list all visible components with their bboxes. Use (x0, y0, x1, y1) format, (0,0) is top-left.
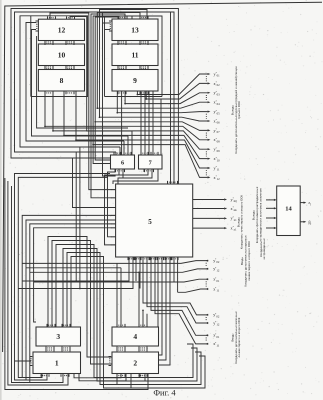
wire L1 (15, 174, 111, 381)
wire fan2 row 4 (155, 257, 208, 344)
arrowhead fan1 row 4 (205, 288, 208, 290)
svg-text:y•05: y•05 (214, 108, 221, 115)
wire 5 drop to block4 corner (157, 257, 159, 327)
wire into block4 top e (142, 310, 144, 327)
arrowhead 5 output 4 (224, 227, 227, 229)
arrowhead fan row 12 (208, 176, 211, 178)
junction dot (145, 98, 147, 100)
svg-text:βj: βj (309, 219, 312, 225)
pins block 13 top (140, 16, 148, 19)
pins block 12 left (36, 21, 39, 31)
wire group box right bottom (105, 96, 163, 98)
svg-text:x•01: x•01 (213, 276, 220, 283)
pins block 13 bottom (118, 41, 126, 44)
svg-text:x•10: x•10 (214, 155, 221, 162)
svg-text:9: 9 (133, 76, 137, 85)
arrowhead fan2 row 4 (205, 343, 208, 345)
bus dots fan pair 6 (205, 170, 207, 175)
svg-text:y•11: y•11 (214, 165, 221, 172)
wire L1 branch block1 left (15, 360, 32, 362)
wire fan2 row 3 (151, 257, 208, 335)
arrowhead 14 input (274, 207, 277, 209)
pins block 13 bottom (140, 41, 148, 44)
block 5 (116, 184, 193, 257)
bus dots fan pair 3 (205, 114, 207, 119)
svg-text:Фиг. 4: Фиг. 4 (153, 388, 176, 398)
pins block 10 bottom (45, 67, 53, 70)
svg-text:1: 1 (55, 358, 59, 367)
wire mid col 5 (95, 17, 118, 160)
junction dot (52, 130, 54, 132)
wire bottom loop 1 (5, 178, 148, 390)
pins block 3 top (62, 324, 70, 327)
pins block 5 left (111, 214, 115, 216)
pins block 9 bottom (140, 92, 148, 95)
pins block 3 bottom (46, 347, 54, 350)
wire 14 input (266, 207, 274, 209)
svg-text:x•06: x•06 (214, 118, 221, 125)
wire mid col 3 (91, 14, 125, 198)
pins block 12 bottom (66, 41, 74, 44)
wire loop C main (20, 16, 120, 147)
wire 5 bottom drop to fan1 1 (165, 257, 167, 263)
svg-text:y•mj: y•mj (231, 196, 237, 203)
bus dots fan pair 1 (205, 76, 207, 81)
wire loop D (123, 141, 125, 155)
pins block 9 bottom (118, 92, 126, 95)
wire loop C (119, 147, 121, 155)
wire q2 (26, 220, 116, 380)
bus dots fan1 pair 1 (205, 263, 207, 267)
pins block 3 top (47, 324, 55, 327)
wire wrap over 13 (105, 16, 163, 97)
svg-text:y•07: y•07 (214, 127, 221, 134)
svg-text:x•nk: x•nk (231, 205, 238, 212)
arrowhead fan row 10 (208, 158, 211, 160)
wire into block 7 top (140, 91, 142, 155)
pins block 12 bottom (45, 42, 53, 45)
svg-text:x•08: x•08 (214, 137, 221, 144)
arrowhead 5 output 2 (224, 207, 227, 209)
bus dots fan2 pair 2 (205, 338, 207, 342)
wire fan1 row 1 (166, 261, 208, 264)
svg-text:12: 12 (58, 26, 66, 35)
arrowhead fan row 7 (208, 129, 211, 131)
pins block 10 bottom (45, 66, 53, 69)
wire into block4 top c (138, 272, 140, 327)
bus dots fan1 pair 2 (205, 281, 207, 286)
wire mid col 8 to 5top (103, 13, 116, 177)
pins block 5 bottom (135, 258, 141, 261)
arrowhead fan2 row 2 (205, 322, 208, 324)
arrowhead 14 output 2 (304, 221, 307, 223)
svg-text:x•02: x•02 (214, 80, 221, 87)
wire 6 bottom c (118, 169, 123, 184)
pins block 7 top (141, 152, 148, 155)
svg-text:y•09: y•09 (214, 146, 221, 153)
pins block 5 left (111, 207, 115, 209)
svg-text:y•12: y•12 (213, 320, 220, 327)
pins block 13 left (109, 21, 112, 31)
junction dot (138, 271, 140, 273)
pins block 5 bottom (165, 258, 171, 261)
wire U block1 to block2 a (74, 374, 121, 378)
pins block 1 bottom (61, 374, 69, 377)
wire 5 output 1 (193, 199, 225, 201)
pins block 11 bottom (118, 66, 126, 69)
block 8 (38, 70, 84, 92)
wire q4 branch (34, 281, 174, 283)
wire branch to 7 top right (160, 100, 162, 156)
pins block 3 bottom (62, 349, 70, 352)
wire loop D main (26, 23, 124, 142)
svg-text:10: 10 (58, 50, 66, 59)
arrowhead fan row 11 (208, 167, 211, 169)
wire 5 drop L1 (22, 257, 129, 281)
wire fan1 row 4 (178, 289, 209, 292)
wire gap line 2 (52, 241, 112, 365)
block 2 (112, 352, 159, 374)
block 6 (111, 155, 135, 169)
wire 5 drop L2 (18, 257, 133, 289)
pins block 12 top (67, 16, 75, 19)
junction dot (75, 139, 77, 141)
arrowhead fan1 row 1 (205, 260, 208, 262)
pins block 5 bottom (128, 258, 134, 261)
junction dot (142, 310, 144, 312)
wire gap line 6 (71, 257, 205, 389)
arrowhead 14 input (274, 227, 277, 229)
wire q3 (30, 224, 116, 383)
svg-text:3: 3 (56, 332, 60, 341)
wire fan row 1 (137, 74, 207, 95)
svg-text:x•12: x•12 (214, 174, 221, 181)
wire 5 drop L3 (135, 257, 137, 281)
wire fan row 2 (146, 83, 208, 99)
svg-text:8: 8 (60, 76, 64, 85)
junction dot (124, 103, 126, 105)
wire into block4 top b (120, 268, 122, 327)
wire loop E (127, 136, 129, 155)
pins block 5 left (111, 223, 115, 225)
svg-text:x•11: x•11 (213, 341, 220, 348)
pins block 5 bottom (158, 258, 164, 261)
pins block 4 bottom (117, 349, 125, 352)
pins block 5 top (168, 181, 178, 184)
svg-text:y•02: y•02 (213, 257, 220, 264)
pins block 13 top (119, 16, 127, 19)
wire fan row 6 (100, 117, 208, 121)
wire fan row 4 (97, 102, 207, 108)
pins block 6 bottom (116, 170, 125, 173)
svg-text:y•02: y•02 (213, 312, 220, 319)
wire L2 (18, 177, 108, 377)
wire drop to block2 right c (159, 257, 163, 355)
wire 14 input (266, 217, 274, 219)
pins block 11 bottom (118, 67, 126, 70)
wire long drop b (79, 147, 81, 289)
pins block 4 top (117, 324, 125, 327)
junction dot (99, 116, 101, 118)
pins block 5 left (111, 189, 115, 191)
wire fan row 12 (93, 145, 208, 178)
arrowhead fan row 2 (208, 82, 211, 84)
wire 5 bottom drop to fan1 3 (173, 257, 175, 282)
wire fan row 7 (95, 122, 208, 131)
pins block 3 bottom (46, 349, 54, 352)
wire q3 branch (30, 271, 170, 273)
arrowhead 5 output 3 (224, 217, 227, 219)
pins block 6 top (114, 152, 121, 155)
pins block 10 bottom (66, 67, 74, 70)
junction dot (63, 135, 65, 137)
pins block 5 left (111, 219, 115, 221)
wire 7 bottom a (143, 169, 145, 172)
wire into block 7 top (144, 91, 146, 155)
wire fan1 row 2 (170, 269, 208, 272)
svg-text:5: 5 (148, 218, 152, 226)
wire q1 branch (22, 262, 166, 264)
pins block 6 top (124, 152, 131, 155)
arrowhead fan row 6 (208, 120, 211, 122)
pins block 12 top (48, 16, 56, 19)
pins block 4 bottom (139, 349, 147, 352)
wire block2 bottom pin (144, 374, 146, 382)
svg-text:13: 13 (131, 25, 139, 34)
wire 5 output 4 (193, 227, 225, 229)
wire gap line 5 (67, 253, 201, 385)
arrowhead 14 input (274, 199, 277, 201)
pins block 5 bottom (172, 258, 178, 261)
pins block 4 top (139, 324, 147, 327)
wire loop B main (15, 12, 175, 184)
wire fan2 row 2 (147, 257, 208, 323)
wire gap line 3 (56, 245, 193, 378)
junction dot (44, 126, 46, 128)
svg-text:6: 6 (121, 160, 124, 167)
svg-text:не приведенных: не приведенных (262, 238, 266, 260)
pins block 2 bottom (139, 374, 147, 377)
pins block 8 bottom (66, 92, 74, 95)
wire 5 output 2 (193, 208, 225, 210)
block 7 (139, 155, 163, 169)
svg-text:x•04: x•04 (214, 99, 221, 106)
bus dots fan pair 2 (205, 95, 207, 100)
block 4 (112, 327, 159, 346)
pins block 5 left (111, 236, 115, 238)
junction dot (94, 121, 96, 123)
arrowhead fan2 row 1 (205, 314, 208, 316)
wire fan row 11 (76, 91, 208, 168)
wire 5 output 3 (193, 217, 225, 219)
wire long drop a (75, 152, 77, 281)
pins block 13 bottom (140, 42, 148, 45)
block 12 (38, 19, 84, 40)
svg-text:εj: εj (309, 200, 312, 206)
pins block 5 left (111, 244, 115, 246)
svg-text:y•12: y•12 (213, 266, 220, 273)
wire block2 bottom pin (139, 374, 141, 378)
wire fan1 row 3 (174, 279, 208, 282)
wire fan row 10 (64, 91, 208, 159)
pins block 4 bottom (139, 347, 147, 350)
arrowhead fan row 9 (208, 148, 211, 150)
wire fan row 8 (45, 91, 208, 140)
pins block 5 left (111, 197, 115, 199)
wire mid col 2 (50, 13, 116, 190)
svg-text:линеек первого и второго ООК: линеек первого и второго ООК (237, 317, 241, 357)
svg-text:y•03: y•03 (214, 90, 221, 97)
wire fan row 9 (53, 91, 208, 149)
wire 5 drop L4 (139, 257, 141, 289)
svg-text:7: 7 (149, 160, 152, 167)
wire ext to block2 right b (159, 272, 171, 365)
bus dots fan pair 4 (205, 133, 207, 138)
wire 14 output 1 (300, 202, 303, 204)
svg-text:2: 2 (133, 358, 137, 367)
pins block 12 bottom (45, 41, 53, 44)
wire into block 7 top (152, 91, 154, 155)
pins block 10 bottom (66, 66, 74, 69)
block 9 (112, 70, 158, 92)
block 11 (112, 44, 158, 66)
wire loop B (115, 152, 117, 155)
svg-text:x•11: x•11 (213, 286, 220, 293)
wire mid col 7 (100, 10, 148, 118)
svg-text:14: 14 (285, 206, 292, 213)
svg-text:по приведенности источников из: по приведенности источников излучения (258, 188, 262, 242)
wire mid col 4 (93, 16, 132, 164)
junction dot (137, 94, 139, 96)
arrowhead fan row 8 (208, 139, 211, 141)
pins block 8 bottom (45, 92, 53, 95)
wire into block4 top f (146, 314, 148, 327)
wire 7 bottom d (113, 169, 158, 184)
arrowhead fan1 row 2 (205, 268, 208, 270)
block 10 (38, 44, 84, 66)
wire q1 (22, 215, 115, 377)
wire U block1 to block2 b (79, 374, 126, 381)
wire 5left p1 (73, 158, 116, 208)
svg-text:третьего ООК: третьего ООК (237, 101, 241, 119)
wire fan row 5 (117, 91, 207, 113)
wire 14 output 2 (300, 221, 303, 223)
pins block 12 bottom (66, 42, 74, 45)
wire group box left bottom (31, 96, 88, 98)
wire group box left side (30, 16, 32, 97)
arrowhead fan row 1 (208, 73, 211, 75)
wire loop A (11, 9, 178, 185)
wire branch into 13 left b (105, 29, 111, 31)
wire mid col 1 (70, 17, 132, 156)
wire 14 input (266, 227, 274, 229)
wire 6 bottom wrap b (105, 169, 120, 245)
wire into block 7 top (148, 91, 150, 155)
wire 6 bottom wrap a (108, 169, 116, 237)
wire 5 bottom drop to fan1 4 (177, 257, 179, 292)
pins block 1 left (30, 357, 33, 366)
wire branch into 13 left a (103, 22, 111, 24)
wire 7 bottom b (119, 169, 148, 175)
pins block 5 bottom (150, 258, 156, 261)
wire gap line 1 (48, 237, 112, 358)
block 14 (277, 186, 301, 236)
pins block 11 bottom (140, 67, 148, 70)
wire drop right of 13 to 5top (170, 12, 172, 184)
wire gap line 4 (63, 249, 197, 382)
junction dot (79, 288, 81, 290)
svg-text:x•01: x•01 (213, 332, 220, 339)
pins block 1 bottom (41, 374, 49, 377)
wire q4 (34, 228, 116, 322)
pins block 4 bottom (117, 347, 125, 350)
wire fan2 row 1 (143, 257, 208, 315)
pins block 2 left (109, 357, 112, 366)
arrowhead 14 output 1 (304, 202, 307, 204)
pins block 3 bottom (62, 347, 70, 350)
bus dots fan pair 5 (205, 151, 207, 156)
arrowhead fan row 4 (208, 101, 211, 103)
block 13 (112, 19, 158, 41)
junction dot (116, 112, 118, 114)
svg-text:4: 4 (133, 332, 137, 341)
arrowhead 5 output 1 (224, 198, 227, 200)
wire block2 bottom hook b (130, 374, 132, 389)
block 3 (36, 327, 81, 346)
wire loop E main (32, 30, 129, 137)
wire hug blocks 10-8 left (37, 36, 128, 128)
pins block 7 bottom (145, 170, 154, 173)
wire block2 bottom hook a (116, 374, 118, 385)
pins block 5 left (111, 227, 115, 229)
junction dot (75, 280, 77, 282)
pins block 11 bottom (140, 66, 148, 69)
wire mid col 6 (97, 13, 140, 109)
wire q2 branch (26, 267, 121, 269)
wire 5 bottom drop to fan1 2 (169, 257, 171, 272)
arrowhead 14 input (274, 217, 277, 219)
arrowhead fan row 3 (208, 92, 211, 94)
pins block 2 bottom (117, 374, 125, 377)
junction dot (92, 144, 94, 146)
pins block 13 bottom (118, 42, 126, 45)
wire bottom loop 2 (8, 181, 68, 385)
svg-text:линеек первого и второго ООК: линеек первого и второго ООК (247, 241, 251, 281)
arrowhead fan1 row 3 (205, 278, 208, 280)
wire into block4 top a (116, 263, 118, 327)
wire 7 bottom c (123, 169, 152, 178)
wire bottom loop 3 (12, 186, 64, 383)
wire fan row 3 (125, 91, 208, 104)
block 1 (33, 352, 81, 374)
wire 9 to block 6 top (121, 91, 123, 155)
arrowhead fan2 row 3 (205, 334, 208, 336)
pins block 5 bottom (143, 258, 149, 261)
svg-text:11: 11 (131, 50, 138, 59)
arrowhead fan row 5 (208, 111, 211, 113)
pins block 7 top (151, 152, 158, 155)
bus dots fan2 pair 1 (205, 317, 207, 321)
wire 14 input (266, 199, 274, 201)
wire ext to block2 right a (159, 263, 167, 360)
junction dot (96, 107, 98, 109)
